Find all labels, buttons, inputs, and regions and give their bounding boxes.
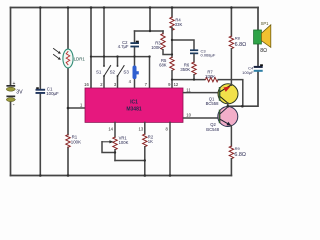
wire: right vertical to speaker — [257, 8, 259, 31]
LDR LDR1 — [54, 49, 86, 68]
svg-text:R9: R9 — [235, 146, 241, 151]
svg-text:33K: 33K — [175, 22, 183, 27]
transistor Q2 BC548 — [206, 107, 238, 133]
node: junction dots bottom — [39, 151, 171, 177]
svg-text:6.8Ω: 6.8Ω — [235, 42, 247, 48]
svg-text:9: 9 — [168, 82, 171, 87]
switch S1 — [96, 8, 111, 89]
battery BATT 3V — [6, 81, 23, 109]
svg-text:4: 4 — [129, 79, 132, 84]
switch S2 — [110, 57, 125, 88]
resistor R7 330K — [205, 69, 242, 106]
capacitor C1 100uF — [36, 8, 60, 176]
wire: bottom ground bus — [11, 175, 232, 177]
svg-text:S1: S1 — [96, 69, 102, 74]
resistor R5 68K — [159, 57, 179, 88]
svg-text:14: 14 — [108, 126, 113, 131]
svg-text:7: 7 — [145, 82, 148, 87]
resistor R1 100K — [66, 135, 81, 148]
svg-text:100K: 100K — [151, 45, 161, 50]
svg-text:330K: 330K — [205, 74, 215, 79]
svg-text:3: 3 — [114, 82, 117, 87]
svg-text:S2: S2 — [110, 69, 116, 74]
svg-text:8: 8 — [165, 127, 168, 132]
node: pin1 junction — [67, 107, 70, 110]
svg-text:68K: 68K — [159, 62, 167, 67]
svg-text:R8: R8 — [235, 36, 241, 41]
IC U1 M3481 — [85, 88, 183, 122]
wire: pin 1 lead — [68, 107, 85, 109]
resistor R3 100K — [151, 31, 172, 55]
svg-text:0.068µF: 0.068µF — [201, 53, 216, 58]
wire: Q2 emitter to R9 — [230, 126, 232, 146]
svg-text:12: 12 — [174, 82, 179, 87]
svg-text:100K: 100K — [71, 140, 81, 145]
capacitor C4 100uF — [242, 64, 263, 75]
transistor Q1 BC558 — [206, 84, 238, 106]
capacitor C3 0.068uF — [172, 40, 216, 62]
svg-text:100µF: 100µF — [242, 70, 254, 75]
svg-text:SP1: SP1 — [261, 21, 270, 26]
svg-text:100K: 100K — [119, 140, 129, 145]
wire: left battery vertical top — [10, 8, 12, 86]
resistor R8 6.8ohm — [229, 8, 246, 86]
svg-text:11: 11 — [186, 88, 191, 93]
svg-text:10: 10 — [186, 113, 191, 118]
svg-text:BC558: BC558 — [206, 101, 219, 106]
resistor R6 3.9K — [180, 62, 196, 80]
svg-text:BC548: BC548 — [206, 127, 219, 132]
wire: speaker to C4 — [257, 44, 259, 66]
wire: C4 to collector node — [228, 72, 258, 106]
svg-text:1K: 1K — [148, 139, 153, 144]
svg-text:1: 1 — [80, 103, 83, 108]
resistor R4 33K — [170, 8, 183, 58]
wire: LDR/R1 column — [67, 8, 69, 50]
wire: top supply bus — [11, 7, 259, 9]
resistor R9 6.8ohm — [229, 146, 246, 176]
svg-text:-: - — [13, 103, 15, 109]
svg-text:S3: S3 — [123, 69, 129, 74]
wire: switch rail — [91, 56, 150, 58]
wire: pin 11 to Q1 base — [184, 92, 220, 94]
capacitor C2 4.7uF — [118, 31, 139, 57]
wire: pin 16 column — [90, 8, 92, 89]
svg-text:100µF: 100µF — [46, 91, 59, 96]
svg-text:IC1: IC1 — [130, 100, 138, 106]
node: junction dots rail and middle — [90, 30, 244, 108]
wire: Q1 collector to Q2 collector node — [227, 103, 229, 107]
svg-text:6.8Ω: 6.8Ω — [234, 152, 246, 158]
svg-text:16: 16 — [84, 82, 89, 87]
speaker SP1 8ohm — [254, 21, 271, 54]
svg-text:M3481: M3481 — [126, 107, 142, 113]
svg-text:350K: 350K — [180, 67, 190, 72]
svg-text:8Ω: 8Ω — [260, 48, 267, 54]
svg-text:3V: 3V — [16, 90, 23, 96]
wire: left battery vertical bottom — [10, 102, 12, 176]
svg-text:13: 13 — [139, 126, 144, 131]
svg-text:LDR1: LDR1 — [74, 56, 86, 61]
switch S3 (closed, blue) — [123, 57, 138, 88]
wire: pin 10 to Q2 base — [184, 117, 220, 119]
wire: C2/R3 feed — [149, 8, 151, 32]
svg-text:4.7µF: 4.7µF — [118, 44, 129, 49]
wire: pin 8 to ground bus — [169, 122, 171, 175]
wire: pin 7 — [149, 57, 151, 88]
node: junction dots top bus — [39, 6, 233, 9]
svg-text:2: 2 — [100, 82, 103, 87]
resistor R2 1K — [139, 122, 154, 175]
wire: VR1/R2 bottom link — [115, 160, 145, 162]
wire: R5 to R7 branch — [172, 79, 205, 81]
svg-text:+: + — [13, 81, 16, 87]
potentiometer VR1 100K — [102, 122, 129, 160]
